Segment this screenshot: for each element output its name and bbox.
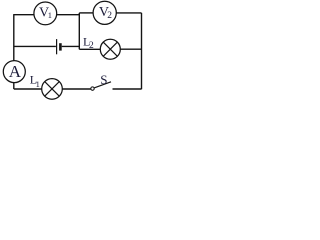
voltmeter V2 circle <box>93 1 116 24</box>
voltmeter V1 circle <box>34 2 57 25</box>
lamp L2 cross <box>103 42 117 56</box>
switch S blade <box>94 82 111 88</box>
wire battery right <box>62 45 80 47</box>
lamp L1 circle <box>42 79 63 100</box>
svg-text:1: 1 <box>36 79 40 89</box>
wire V2 right to top-right corner <box>116 12 141 14</box>
svg-text:A: A <box>9 62 22 81</box>
wire ammeter bottom to rail <box>13 82 15 89</box>
svg-text:S: S <box>100 72 107 87</box>
svg-text:2: 2 <box>89 41 94 51</box>
wire V1 right to junction <box>57 14 80 16</box>
wire bottom-left rail <box>14 88 42 90</box>
switch S pivot circle <box>91 87 94 90</box>
wire right vertical <box>141 13 143 89</box>
svg-text:2: 2 <box>107 11 112 21</box>
svg-text:1: 1 <box>48 10 52 20</box>
ammeter A circle <box>3 61 25 83</box>
battery short plate <box>59 43 62 50</box>
wire switch right to bottom-right corner <box>113 88 142 90</box>
wire battery left (junction to long plate) <box>14 45 56 47</box>
wire L2 right <box>120 48 141 50</box>
wire left vertical (corner down to ammeter) <box>13 14 15 61</box>
wire L1 right to switch <box>62 88 90 90</box>
wire L2 left <box>79 48 100 50</box>
wire mid vertical (top rail down to L2 wire) <box>78 13 80 49</box>
wire top-left rail (corner to V1) <box>14 14 34 16</box>
lamp L1 cross <box>45 82 59 96</box>
battery long plate <box>56 39 58 54</box>
wire right rail (junction to V2) <box>79 12 93 14</box>
lamp L2 circle <box>100 39 120 59</box>
